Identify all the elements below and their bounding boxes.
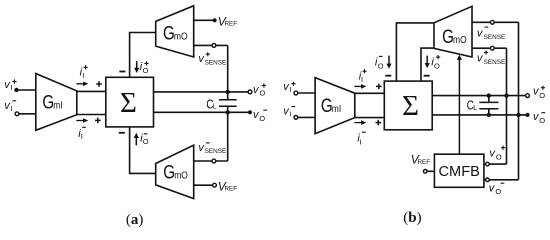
svg-text:L: L [213, 102, 217, 110]
svg-text:O: O [143, 66, 149, 75]
svg-text:G: G [321, 95, 333, 117]
svg-text:I: I [290, 85, 292, 94]
svg-text:mI: mI [53, 100, 62, 111]
svg-text:REF: REF [225, 186, 238, 193]
svg-text:REF: REF [418, 159, 431, 166]
svg-text:REF: REF [225, 21, 238, 28]
svg-text:O: O [143, 137, 149, 146]
svg-text:SENSE: SENSE [205, 59, 227, 66]
svg-text:mO: mO [174, 31, 188, 42]
svg-text:O: O [260, 89, 266, 98]
svg-text:O: O [539, 116, 545, 125]
svg-text:Σ: Σ [120, 87, 137, 119]
svg-text:(a): (a) [126, 212, 144, 228]
svg-text:mI: mI [332, 104, 341, 115]
svg-text:mO: mO [453, 34, 467, 45]
svg-text:O: O [378, 61, 384, 70]
svg-text:I: I [81, 132, 83, 141]
svg-text:O: O [495, 187, 501, 196]
svg-text:Σ: Σ [402, 90, 419, 122]
svg-text:O: O [539, 91, 545, 100]
svg-text:SENSE: SENSE [205, 148, 227, 155]
svg-text:(b): (b) [403, 210, 421, 226]
svg-text:L: L [473, 103, 477, 111]
svg-text:G: G [42, 91, 54, 113]
svg-text:CMFB: CMFB [439, 164, 480, 180]
svg-text:G: G [163, 161, 175, 183]
svg-text:I: I [10, 104, 12, 113]
svg-text:I: I [10, 83, 12, 92]
svg-text:SENSE: SENSE [484, 59, 506, 66]
svg-text:I: I [360, 137, 362, 146]
svg-text:mO: mO [174, 170, 188, 181]
svg-text:O: O [434, 61, 440, 70]
svg-text:O: O [259, 114, 265, 123]
svg-text:I: I [290, 110, 292, 119]
svg-text:I: I [82, 71, 84, 80]
svg-text:SENSE: SENSE [484, 34, 506, 41]
svg-text:G: G [442, 25, 454, 47]
svg-text:O: O [496, 152, 502, 161]
svg-text:G: G [163, 22, 175, 44]
svg-text:I: I [361, 75, 363, 84]
